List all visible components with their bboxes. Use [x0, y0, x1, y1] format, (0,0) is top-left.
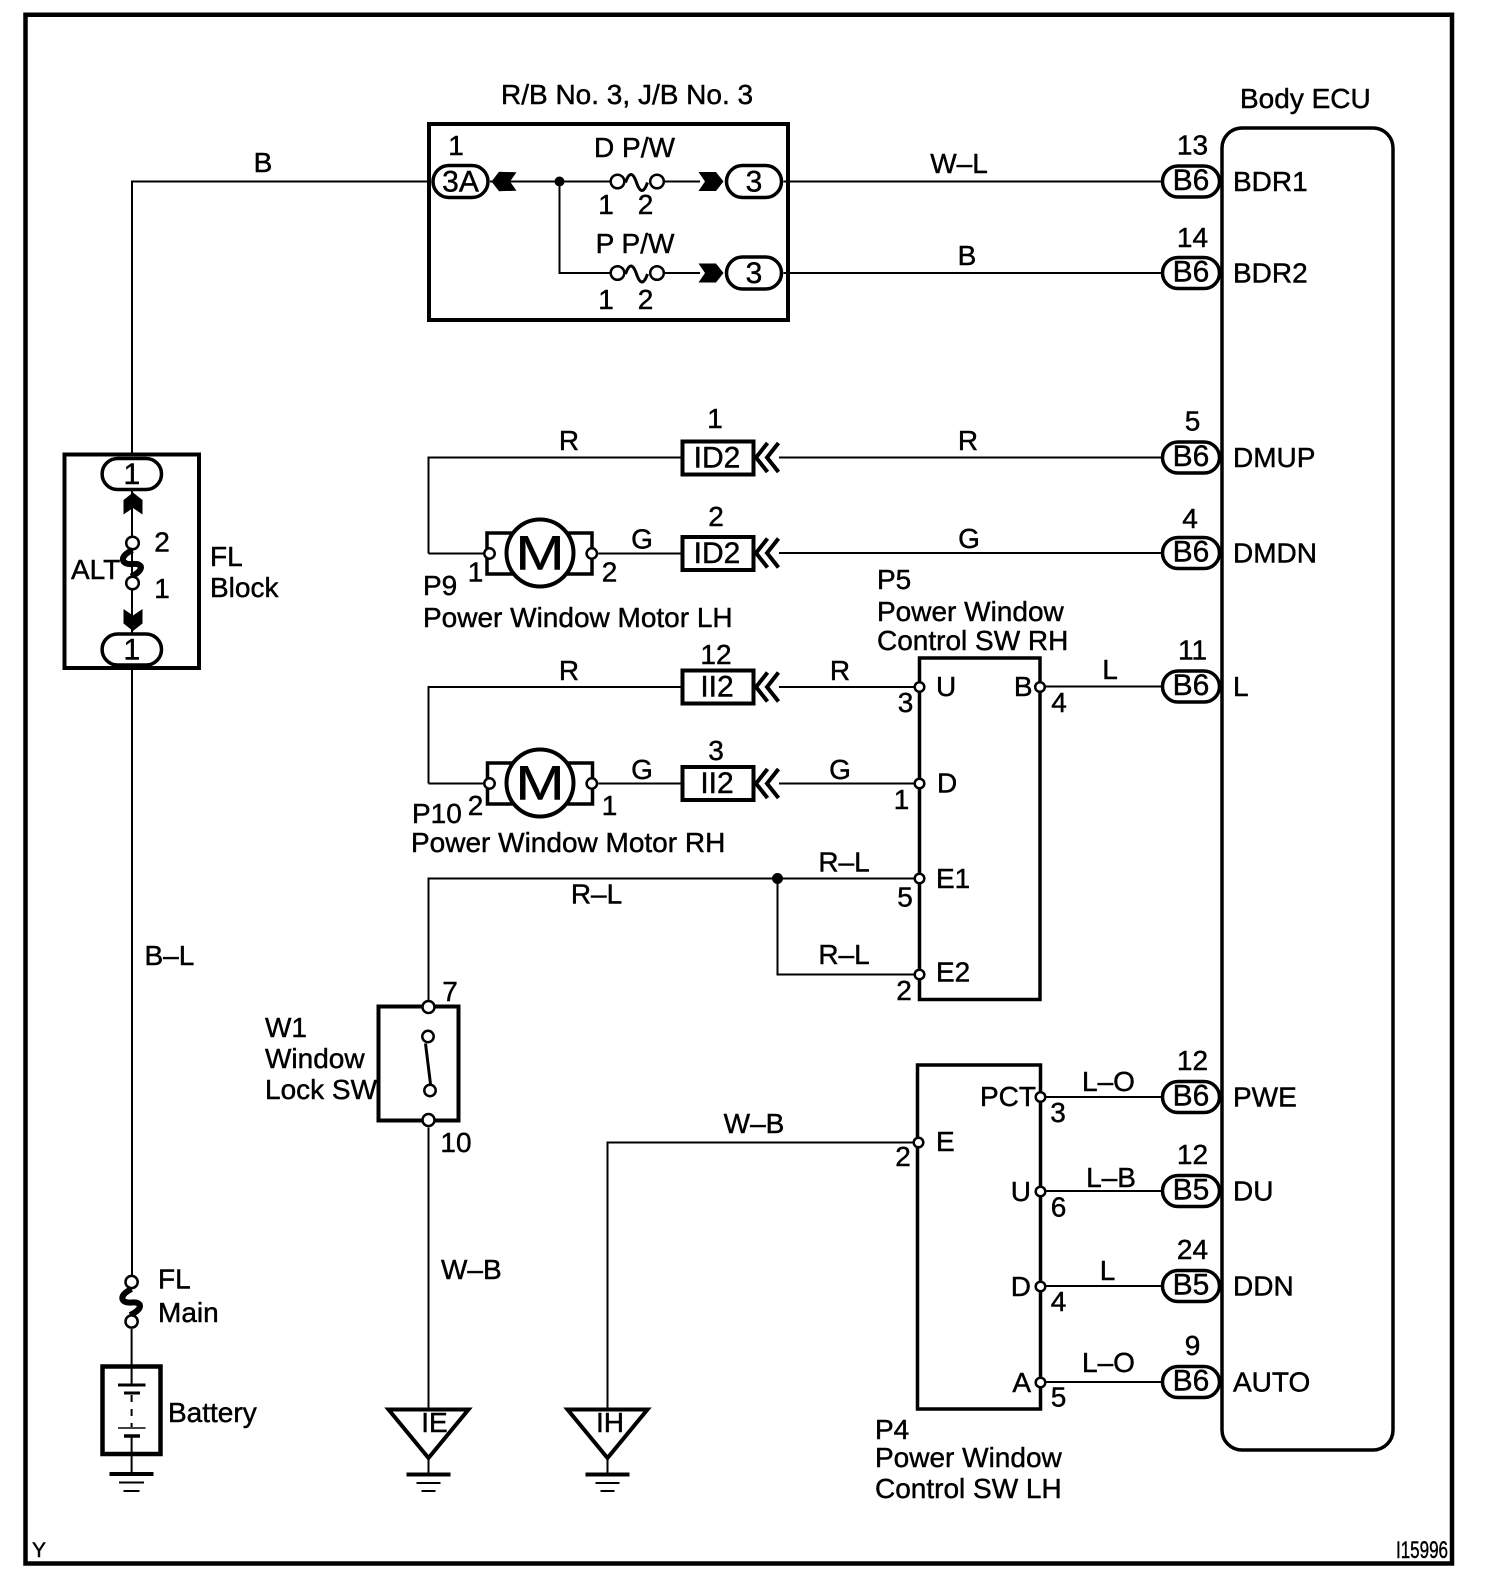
connector oval 3A [433, 166, 488, 198]
pin 7 [423, 1001, 435, 1013]
chevrons [756, 673, 779, 702]
svg-text:B6: B6 [1173, 256, 1210, 289]
connector B6 pin 13 BDR1 [1163, 166, 1220, 197]
wire L from pin B to ECU L [1046, 686, 1161, 688]
svg-text:3A: 3A [442, 166, 479, 199]
svg-text:Power Window: Power Window [877, 596, 1065, 627]
svg-text:B6: B6 [1173, 1080, 1210, 1113]
svg-text:12: 12 [700, 639, 731, 670]
svg-text:E2: E2 [936, 957, 970, 988]
ground IH triangle [568, 1410, 648, 1459]
svg-text:11: 11 [1178, 635, 1207, 666]
connector oval 1 (top) [102, 459, 161, 490]
svg-text:1: 1 [448, 130, 464, 161]
svg-text:Power Window Motor LH: Power Window Motor LH [423, 602, 733, 633]
wire to motor RH pin 2 [429, 783, 485, 785]
svg-text:M: M [516, 528, 565, 581]
wire R to P5 pin U [779, 686, 914, 688]
svg-text:B6: B6 [1173, 536, 1210, 569]
pin PCT (3) [1036, 1092, 1046, 1102]
P4 Power Window Control SW LH box [918, 1065, 1041, 1409]
fuse P P/W [611, 266, 625, 280]
wire to motor LH pin 1 [429, 553, 485, 555]
svg-text:G: G [631, 524, 653, 555]
svg-text:G: G [631, 754, 653, 785]
svg-text:Body ECU: Body ECU [1240, 83, 1371, 114]
svg-text:IH: IH [596, 1407, 624, 1438]
wire L-O A to AUTO [1047, 1381, 1162, 1383]
svg-text:1: 1 [707, 403, 723, 434]
motor pin 2 [587, 548, 597, 558]
svg-text:D: D [937, 768, 957, 799]
connector B6 pin 5 DMUP [1163, 442, 1220, 473]
svg-text:5: 5 [1051, 1382, 1067, 1413]
svg-text:L–B: L–B [1086, 1162, 1136, 1193]
connector II2 pin 3 [683, 767, 754, 800]
svg-text:L–O: L–O [1082, 1347, 1135, 1378]
wire R from motor RH loop to II2 [429, 687, 683, 784]
switch blade [426, 1044, 431, 1085]
motor pin 1 [587, 778, 597, 788]
junction dot [772, 873, 783, 884]
svg-text:1: 1 [602, 790, 618, 821]
wire L-B U to DU [1047, 1190, 1162, 1192]
svg-text:13: 13 [1177, 130, 1208, 161]
svg-text:R: R [559, 425, 579, 456]
branch wire to E2 [778, 879, 914, 975]
svg-text:M: M [516, 758, 565, 811]
wire to battery [131, 1329, 133, 1385]
Body ECU box [1222, 128, 1393, 1450]
wire fuse to arrow [665, 272, 700, 274]
connector B5 pin 24 DDN [1163, 1271, 1220, 1302]
pin A (5) [1036, 1378, 1046, 1388]
connector B6 pin 12 PWE [1163, 1082, 1220, 1113]
svg-text:3: 3 [898, 687, 914, 718]
pin D (4) [1036, 1282, 1046, 1292]
svg-text:R–L: R–L [818, 847, 869, 878]
wire fuse to arrow [665, 181, 700, 183]
svg-text:Battery: Battery [168, 1397, 257, 1428]
svg-text:1: 1 [598, 189, 614, 220]
connector II2 pin 12 [683, 671, 754, 704]
svg-text:D P/W: D P/W [594, 132, 675, 163]
svg-text:R–L: R–L [571, 879, 622, 910]
wire R to DMUP [779, 457, 1161, 459]
svg-text:B–L: B–L [145, 940, 195, 971]
svg-text:P9: P9 [423, 570, 457, 601]
svg-text:D: D [1011, 1271, 1031, 1302]
switch contact top [422, 1031, 433, 1042]
svg-text:L: L [1102, 654, 1118, 685]
chevrons [756, 443, 779, 472]
svg-text:DMUP: DMUP [1233, 442, 1315, 473]
power window motor RH P10 [488, 763, 593, 804]
fusible link ALT [126, 537, 139, 550]
svg-text:B6: B6 [1173, 440, 1210, 473]
svg-text:ID2: ID2 [694, 442, 741, 475]
svg-text:L: L [1100, 1255, 1116, 1286]
chevrons [756, 539, 779, 568]
connector B6 pin 14 BDR2 [1163, 258, 1220, 289]
svg-text:1: 1 [598, 284, 614, 315]
svg-text:E: E [936, 1126, 955, 1157]
svg-text:W–B: W–B [724, 1108, 785, 1139]
svg-text:4: 4 [1051, 687, 1067, 718]
svg-text:P10: P10 [412, 798, 462, 829]
svg-text:B: B [254, 147, 273, 178]
power window motor LH P9 [487, 533, 592, 574]
svg-text:R–L: R–L [818, 939, 869, 970]
svg-text:Block: Block [210, 572, 279, 603]
arrow right [699, 264, 724, 283]
svg-text:W–B: W–B [441, 1254, 502, 1285]
svg-text:W–L: W–L [930, 148, 988, 179]
motor pin 1 [484, 548, 494, 558]
wire B to BDR2 [784, 272, 1162, 274]
wire W-L to BDR1 [784, 181, 1162, 183]
svg-text:Control SW RH: Control SW RH [877, 625, 1068, 656]
wire G to P5 pin D [779, 783, 914, 785]
ground (battery) [110, 1472, 154, 1476]
svg-text:R: R [958, 425, 978, 456]
ground IE triangle [389, 1410, 469, 1459]
arrow left [492, 172, 517, 191]
connector ID2 pin 2 [683, 537, 754, 570]
wire B from FL Block up and right to R/B No.3 box [132, 182, 431, 457]
svg-text:1: 1 [154, 573, 170, 604]
svg-text:P5: P5 [877, 564, 911, 595]
wire G motor to ID2 [598, 553, 682, 555]
junction dot [555, 177, 565, 187]
svg-text:BDR1: BDR1 [1233, 166, 1308, 197]
pin U (6) [1036, 1187, 1046, 1197]
svg-text:DU: DU [1233, 1176, 1273, 1207]
svg-text:P4: P4 [875, 1414, 909, 1445]
svg-text:FL: FL [158, 1264, 191, 1295]
svg-text:2: 2 [638, 284, 654, 315]
connector oval 1 (bottom) [102, 634, 161, 665]
svg-text:U: U [936, 671, 956, 702]
svg-text:B5: B5 [1173, 1174, 1210, 1207]
svg-text:Power Window: Power Window [875, 1442, 1063, 1473]
wire L D to DDN [1047, 1285, 1162, 1287]
svg-text:DDN: DDN [1233, 1271, 1294, 1302]
svg-text:AUTO: AUTO [1233, 1367, 1310, 1398]
svg-text:1: 1 [468, 557, 484, 588]
FL Block internal wire [131, 474, 133, 649]
switch contact bottom [424, 1085, 435, 1096]
svg-text:G: G [829, 754, 851, 785]
svg-text:II2: II2 [700, 767, 733, 800]
arrow right [699, 172, 724, 191]
svg-text:7: 7 [442, 976, 458, 1007]
FL Block box [65, 455, 200, 669]
connector B6 pin 11 L [1163, 671, 1220, 702]
fuse D P/W [611, 175, 625, 189]
svg-text:R: R [559, 655, 579, 686]
W1 Window Lock SW box [379, 1007, 459, 1121]
svg-text:Power Window Motor RH: Power Window Motor RH [411, 827, 725, 858]
connector oval 3 (row 2) [727, 257, 782, 289]
ground IE stem and bars [428, 1458, 430, 1474]
svg-text:DMDN: DMDN [1233, 538, 1317, 569]
svg-text:U: U [1011, 1176, 1031, 1207]
battery [103, 1367, 161, 1455]
svg-text:3: 3 [708, 735, 724, 766]
svg-text:3: 3 [746, 257, 763, 290]
svg-text:L: L [1233, 671, 1249, 702]
connector oval 3 (row 1) [727, 166, 782, 198]
svg-text:ALT: ALT [71, 554, 120, 585]
svg-text:ID2: ID2 [694, 537, 741, 570]
P5 Power Window Control SW RH box [920, 658, 1041, 1000]
connector ID2 pin 1 [683, 442, 754, 475]
svg-text:II2: II2 [700, 671, 733, 704]
svg-text:14: 14 [1177, 222, 1208, 253]
pin D (1) [915, 779, 925, 789]
svg-text:E1: E1 [936, 863, 970, 894]
svg-text:B: B [958, 240, 977, 271]
svg-text:12: 12 [1177, 1045, 1208, 1076]
svg-text:BDR2: BDR2 [1233, 258, 1308, 289]
wire G motor to II2 [598, 783, 682, 785]
svg-text:B6: B6 [1173, 1365, 1210, 1398]
arrow up [124, 493, 143, 515]
svg-text:G: G [958, 523, 980, 554]
svg-text:IE: IE [421, 1407, 447, 1438]
svg-text:R/B No. 3, J/B No. 3: R/B No. 3, J/B No. 3 [501, 79, 753, 110]
pin E2 (2) [915, 970, 925, 980]
ground IH stem and bars [607, 1458, 609, 1474]
svg-text:1: 1 [123, 634, 140, 667]
pin E1 (5) [915, 874, 925, 884]
connector B6 pin 4 DMDN [1163, 538, 1220, 569]
connector B5 pin 12 DU [1163, 1176, 1220, 1207]
svg-text:I15996: I15996 [1396, 1537, 1448, 1564]
svg-text:W1: W1 [265, 1012, 307, 1043]
pin B (4) [1035, 682, 1045, 692]
svg-text:9: 9 [1185, 1330, 1201, 1361]
svg-text:Control SW LH: Control SW LH [875, 1473, 1062, 1504]
svg-text:2: 2 [602, 557, 618, 588]
svg-text:Main: Main [158, 1297, 219, 1328]
svg-text:Lock SW: Lock SW [265, 1074, 378, 1105]
wire L-O PCT to PWE [1047, 1096, 1162, 1098]
svg-text:3: 3 [1050, 1097, 1066, 1128]
wire G to DMDN [779, 552, 1161, 554]
pin U (3) [915, 682, 925, 692]
svg-text:2: 2 [468, 790, 484, 821]
wire R from motor LH loop to ID2 [429, 458, 683, 554]
svg-text:PCT: PCT [980, 1081, 1036, 1112]
svg-text:24: 24 [1177, 1234, 1208, 1265]
svg-text:L–O: L–O [1082, 1066, 1135, 1097]
svg-text:B: B [1014, 671, 1033, 702]
svg-text:4: 4 [1182, 503, 1198, 534]
svg-text:B5: B5 [1173, 1269, 1210, 1302]
svg-text:FL: FL [210, 541, 243, 572]
connector B6 pin 9 AUTO [1163, 1367, 1220, 1398]
svg-text:3: 3 [746, 166, 763, 199]
svg-text:2: 2 [708, 501, 724, 532]
wire R-L from E1 left to window lock SW [429, 879, 914, 1001]
wire row 1 inside box [490, 181, 610, 183]
svg-text:4: 4 [1051, 1286, 1067, 1317]
motor pin 2 [484, 778, 494, 788]
svg-text:2: 2 [895, 1141, 911, 1172]
wire W-B from P4 pin E to ground IH [608, 1143, 914, 1410]
branch wire down to second fuse [560, 182, 611, 274]
svg-text:5: 5 [897, 882, 913, 913]
svg-text:2: 2 [896, 975, 912, 1006]
svg-text:A: A [1012, 1367, 1031, 1398]
svg-text:PWE: PWE [1233, 1082, 1297, 1113]
wire B-L down to FL Main [131, 668, 133, 1276]
svg-text:P P/W: P P/W [596, 228, 675, 259]
svg-text:B6: B6 [1173, 669, 1210, 702]
svg-text:2: 2 [638, 189, 654, 220]
fusible link FL Main [126, 1276, 138, 1288]
svg-text:12: 12 [1177, 1139, 1208, 1170]
arrow down [124, 609, 143, 631]
chevrons [756, 769, 779, 798]
svg-text:1: 1 [123, 458, 140, 491]
svg-text:6: 6 [1051, 1192, 1067, 1223]
svg-text:Y: Y [32, 1539, 46, 1562]
svg-text:B6: B6 [1173, 164, 1210, 197]
pin 10 [423, 1114, 435, 1126]
svg-text:5: 5 [1185, 406, 1201, 437]
R/B No. 3, J/B No. 3 junction block box [429, 124, 788, 320]
svg-text:10: 10 [440, 1127, 471, 1158]
wire W-B to ground IE [428, 1128, 430, 1410]
svg-text:R: R [830, 655, 850, 686]
pin E (2) [914, 1138, 924, 1148]
svg-text:Window: Window [265, 1043, 365, 1074]
svg-text:1: 1 [894, 784, 910, 815]
svg-text:2: 2 [154, 527, 170, 558]
